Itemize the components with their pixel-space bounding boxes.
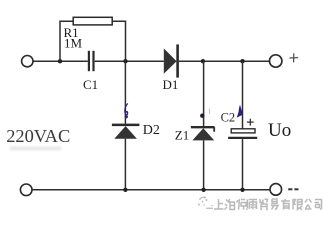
- resistor R1: [73, 17, 112, 25]
- node junction C2-bottom: [240, 188, 244, 192]
- terminal bottom-right: [270, 184, 282, 196]
- svg-text:C2: C2: [221, 111, 236, 125]
- svg-text:220VAC: 220VAC: [6, 126, 70, 146]
- char 贸: [260, 199, 268, 210]
- wire Z1 branch bottom: [203, 140, 205, 189]
- char 上: [214, 199, 224, 209]
- plus sign C2: [247, 119, 254, 126]
- zener Z1: [191, 127, 215, 132]
- char 限: [293, 199, 302, 210]
- diode D2: [112, 124, 139, 127]
- char 海: [225, 199, 236, 210]
- char 司: [315, 200, 322, 210]
- svg-text:D1: D1: [163, 77, 179, 92]
- node junction Z1-bottom: [201, 188, 205, 192]
- node junction Z1-top: [201, 59, 205, 63]
- wire C2 branch top: [242, 61, 244, 129]
- watermark company text: [214, 199, 322, 210]
- wire Z1 branch top: [203, 61, 205, 127]
- capacitor C1: [89, 51, 94, 71]
- wire top main left: [33, 60, 88, 62]
- wire bottom main: [32, 189, 270, 191]
- char 雨: [249, 200, 258, 210]
- wire D1 to terminal: [179, 60, 270, 62]
- svg-text:Z1: Z1: [175, 128, 189, 143]
- node dot above Z1: [200, 114, 204, 118]
- wire R1 loop right: [112, 21, 125, 61]
- char 易: [271, 199, 278, 210]
- watermark logo: [198, 196, 213, 209]
- svg-text:1M: 1M: [64, 36, 83, 51]
- minus sign output: [288, 188, 298, 190]
- capacitor C2: [231, 129, 255, 133]
- wire D2 branch bottom: [124, 139, 126, 190]
- char 公: [305, 199, 312, 209]
- node junction C2-top: [240, 59, 244, 63]
- annotation blue loop D2: [125, 103, 128, 114]
- terminal bottom-left: [20, 184, 32, 196]
- faint tick above Z1: [208, 109, 210, 114]
- svg-text:C1: C1: [83, 77, 98, 92]
- char 有: [281, 199, 290, 210]
- wire R1 loop left: [60, 21, 73, 61]
- svg-text:Uo: Uo: [268, 120, 291, 141]
- terminal top-right: [270, 55, 282, 67]
- node junction D2-top: [123, 59, 127, 63]
- plus sign output: [290, 53, 299, 62]
- shadow artifact under 220VAC: [10, 146, 61, 150]
- node junction D2-bottom: [123, 188, 127, 192]
- wire C1 to D1: [95, 60, 164, 62]
- wire D2 branch top: [124, 61, 126, 124]
- svg-text:D2: D2: [143, 123, 160, 138]
- diode D1: [164, 48, 177, 73]
- terminal top-left: [22, 56, 33, 67]
- node junction R1-left: [58, 59, 62, 63]
- char 衡: [237, 199, 248, 210]
- annotation blue arrow C2: [237, 105, 243, 118]
- wire C2 branch bottom: [242, 139, 244, 190]
